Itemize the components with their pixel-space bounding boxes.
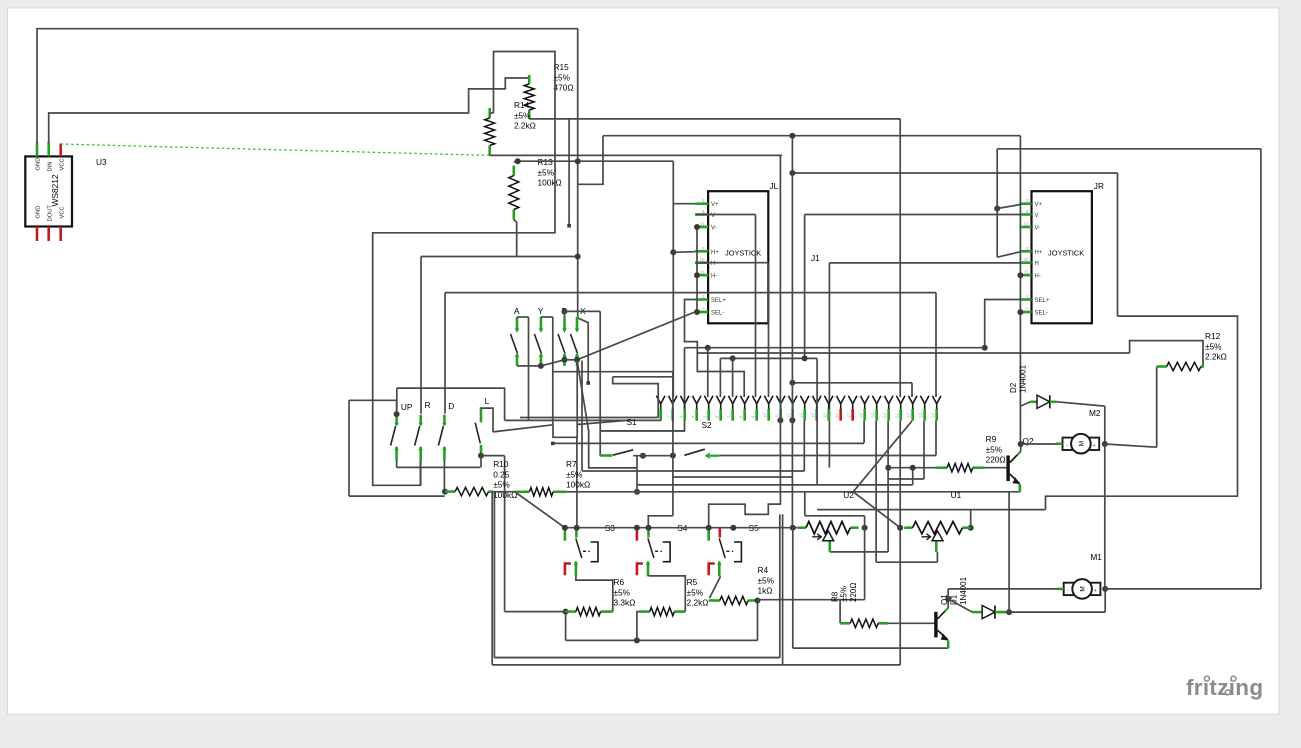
wire S2 pin18 down — [863, 421, 865, 443]
wire rail y418 — [520, 417, 658, 419]
svg-text:11: 11 — [700, 270, 705, 275]
junction pin6 tap — [730, 355, 736, 361]
U3 top pin GND stub — [36, 142, 39, 156]
wire rail y383 — [792, 382, 912, 384]
junction x913 R9 rail — [910, 465, 916, 471]
switch L top stub — [480, 407, 483, 422]
wire R13 top hook — [514, 160, 518, 163]
wire UP top feed — [349, 400, 397, 412]
wire R6 left rail — [505, 611, 566, 613]
U3 pin labels top GND DIN VCC — [36, 158, 66, 222]
wire x684 down to y431 — [600, 348, 684, 431]
junction pin4 tap — [705, 345, 711, 351]
wire rail y468 to R9 — [888, 467, 936, 469]
wire JL V right — [696, 214, 756, 216]
switch S1 blade 2 — [684, 449, 705, 455]
wire U2 right column — [864, 516, 866, 600]
junction S3 a — [562, 525, 568, 531]
wire S2 pin12 long column — [791, 136, 793, 528]
wire UP bottom down — [396, 461, 398, 467]
switch D bottom stub — [443, 447, 446, 461]
wire rail y443 — [553, 442, 864, 444]
svg-text:H: H — [1035, 261, 1039, 267]
resistor R9 220 — [936, 464, 984, 472]
svg-text:VCC: VCC — [60, 158, 66, 170]
switch X blade — [571, 334, 578, 354]
wire S3 bottom to R6 right — [576, 576, 613, 611]
wire rail y173 — [792, 172, 1117, 174]
wire dip jog — [553, 425, 577, 438]
svg-text:22: 22 — [907, 413, 912, 418]
junction pin20 R9 rail — [885, 465, 891, 471]
wire L bottom link — [480, 456, 482, 468]
wire bottom rail a — [494, 657, 779, 659]
wire R4 right down — [757, 601, 759, 641]
wire ratsnest U3 VCC to R14 dashed green — [61, 144, 490, 155]
JL pin 1 SEL+ stub — [695, 298, 708, 301]
junction JL H+ tap — [670, 249, 676, 255]
wire S1 column to S4 left — [648, 516, 673, 528]
wire S2 pin24 down — [935, 421, 937, 456]
svg-text:SEL+: SEL+ — [711, 298, 726, 304]
junction x805 y358 — [802, 355, 808, 361]
junction S1 common b — [670, 453, 676, 459]
svg-text:WS8212: WS8212 — [50, 174, 60, 206]
junction R6 left — [563, 609, 569, 615]
resistor R15 470 ohm — [524, 75, 534, 119]
wire JL SEL- diagonal to switch X — [577, 312, 695, 360]
wire rail y293 — [445, 292, 936, 294]
JL pin 2 V+ stub — [695, 202, 708, 205]
motor M1 — [1058, 579, 1101, 599]
svg-text:10: 10 — [763, 413, 768, 418]
svg-text:+: + — [1094, 588, 1097, 594]
junction D1 cathode — [1006, 609, 1012, 615]
wire rail y311 — [565, 310, 601, 312]
wire rail y149 — [997, 148, 1261, 150]
wire end marker x569 — [567, 224, 571, 228]
wire U2 wiper rail — [830, 551, 888, 553]
wire JR H+ hook — [997, 252, 1019, 257]
wire JL SEL+ route to S2 pin8 — [685, 300, 745, 398]
junction JR SEL+ to rail — [982, 345, 988, 351]
switch R top stub — [419, 415, 422, 426]
joystick JR body — [1032, 191, 1092, 323]
wire JR right column — [1117, 173, 1119, 316]
resistor R13 100k — [509, 166, 519, 220]
potentiometer U2 — [798, 522, 859, 541]
svg-text:R: R — [425, 400, 431, 410]
svg-text:L: L — [485, 396, 490, 406]
junction R4 right — [755, 598, 761, 604]
switch S3 terminal B stub — [575, 528, 578, 538]
wire rail y471 left — [582, 470, 804, 472]
wire A top hook — [517, 316, 529, 318]
wire down to S2 pin5 — [719, 358, 721, 397]
connector S2 24 header pins — [656, 396, 941, 409]
svg-text:M1: M1 — [1090, 552, 1102, 562]
switch B bottom stub — [563, 354, 566, 366]
svg-text:S2: S2 — [702, 420, 713, 430]
junction S5 U2 left — [790, 525, 796, 531]
junction y640 — [634, 637, 640, 643]
JL pin 3 H+ stub — [695, 250, 708, 253]
switch B top stub — [563, 317, 566, 331]
svg-text:SEL-: SEL- — [1035, 311, 1048, 317]
svg-text:H+: H+ — [711, 250, 719, 256]
U3 part name WS8212 — [50, 174, 60, 206]
wire R14 top frame to switch R bottom — [373, 52, 555, 486]
transistor Q1 — [934, 608, 948, 641]
wire to R12 right — [1130, 341, 1203, 367]
wire R10 right column b — [493, 492, 495, 658]
svg-text:+: + — [1093, 443, 1096, 449]
switch S4 terminal B stub — [647, 528, 650, 538]
U3 top pin DIN stub — [47, 142, 50, 156]
wire R10 right column a — [491, 492, 493, 665]
junction S4 green — [646, 525, 652, 531]
svg-text:H+: H+ — [1035, 250, 1043, 256]
wire R8 to Q1 base — [888, 622, 935, 624]
switch A blade — [511, 334, 518, 354]
wire A bottom to Y — [517, 365, 541, 367]
wire S1 upper frame — [613, 377, 659, 418]
wire D1 column up — [1008, 492, 1010, 612]
svg-text:20: 20 — [883, 413, 888, 418]
junction L bottom — [478, 453, 484, 459]
svg-text:J1: J1 — [811, 253, 820, 263]
wire rail y372 — [553, 371, 673, 373]
switch S4 dashed link — [655, 550, 662, 552]
junction JR H- — [1017, 272, 1023, 278]
junction S4 red — [634, 525, 640, 531]
wire Q2 collector up — [1020, 444, 1022, 452]
JL pin 10 H stub — [695, 261, 708, 264]
JL pin 8 V stub — [695, 213, 708, 216]
wire bottom rail y640 — [566, 639, 758, 641]
junction S3 b — [574, 525, 580, 531]
wire B to X bottom — [565, 359, 578, 361]
wire U1 wiper rail — [876, 561, 937, 563]
svg-text:220Ω: 220Ω — [849, 583, 858, 602]
svg-text:SEL+: SEL+ — [1035, 298, 1050, 304]
wire bottom rail a — [494, 657, 779, 659]
junction JL V- — [694, 224, 700, 230]
wire JR V- D2 column — [1019, 136, 1021, 444]
junction JL H- — [694, 272, 700, 278]
JR pin 1 SEL+ stub — [1019, 298, 1031, 301]
JR pin 2 V+ stub — [1019, 202, 1031, 205]
svg-text:V-: V- — [711, 226, 717, 232]
junction JR SEL- — [1017, 309, 1023, 315]
U3 bottom pin DOUT stub red — [47, 227, 50, 242]
junction x578 y257 — [575, 254, 581, 260]
wire R7 right rail to Q2 emitter — [566, 491, 1020, 493]
wire rail y353 — [697, 352, 1129, 354]
resistor R4 1k — [709, 596, 758, 604]
wire end marker y443 — [551, 442, 555, 446]
wire JR SEL+ down — [985, 300, 1021, 348]
switch R blade — [415, 426, 420, 446]
wire R13 bottom left — [421, 220, 517, 257]
wire S2 pin14 column — [816, 358, 818, 485]
junction UP top — [394, 411, 400, 417]
wire bottom rail b — [492, 664, 900, 666]
switch S5 dashed link — [726, 550, 733, 552]
wire slant2 to rail — [577, 420, 629, 424]
svg-text:fritzing: fritzing — [1186, 675, 1263, 700]
wire rail y388 — [397, 387, 505, 389]
svg-text:UP: UP — [401, 402, 413, 412]
junction y173 x792 — [789, 170, 795, 176]
svg-text:14: 14 — [811, 413, 816, 418]
wire right edge column — [1260, 149, 1262, 589]
svg-text:GND: GND — [36, 206, 42, 219]
svg-text:10: 10 — [1024, 257, 1029, 262]
wire Q1 collector to D1 — [948, 599, 972, 612]
junction S2 pin11 tip — [777, 417, 783, 423]
wire R9 to Q2 base — [984, 467, 1007, 469]
svg-text:U1: U1 — [951, 490, 962, 500]
wire R10 to R7 — [493, 491, 517, 493]
wire JL H down to S2 pin10 — [768, 263, 770, 397]
S2 pin number labels — [655, 413, 936, 418]
wire S2 pin13 down — [803, 421, 805, 471]
wire JL H+ left — [673, 251, 695, 254]
switch S5 blade — [719, 538, 725, 558]
junction R10 left — [442, 489, 448, 495]
wire R12 left column — [1156, 367, 1158, 448]
junction U1 right — [968, 525, 974, 531]
wire rail y348 — [685, 347, 985, 349]
svg-text:A: A — [514, 306, 520, 316]
svg-text:H-: H- — [1035, 274, 1041, 280]
junction Q1 collector — [945, 596, 951, 602]
wire x349 column — [348, 400, 350, 496]
wire Y top hook — [541, 316, 553, 318]
switch S3 terminal A stub — [564, 528, 567, 541]
wire down to S2 pin4 — [707, 348, 709, 397]
motor M2 — [1056, 434, 1099, 454]
wire L bottom right — [481, 455, 505, 457]
switch S1 blade — [613, 450, 634, 455]
wire D1 to M1 column — [1009, 611, 1105, 613]
svg-text:1N4001: 1N4001 — [959, 576, 968, 605]
junction JL SEL- — [694, 309, 700, 315]
junction S5 green — [706, 525, 712, 531]
wire R13 bottom rail right — [517, 256, 578, 258]
Q2 emitter stub — [1018, 484, 1021, 492]
wire B top stub link — [564, 311, 566, 317]
resistor R12 2.2k — [1157, 362, 1204, 370]
svg-text:JOYSTICK: JOYSTICK — [1048, 249, 1084, 258]
wire R8 left up — [839, 600, 841, 624]
wire rail y358 — [720, 357, 817, 359]
wire S1 mid — [633, 455, 673, 457]
svg-text:-: - — [1067, 588, 1069, 594]
switch S1 pin stub 2 arrow — [706, 455, 719, 457]
wire U1 wiper down — [936, 552, 938, 562]
wire JL V- to SEL- column — [696, 227, 698, 312]
svg-text:DIN: DIN — [48, 162, 54, 172]
wire slant L to Y column — [493, 425, 553, 432]
wire x805 down — [804, 215, 806, 359]
junction S1 common a — [640, 453, 646, 459]
diode D1 1N4001 — [972, 606, 1006, 619]
wire S2 pin20 column — [887, 421, 889, 552]
svg-text:DOUT: DOUT — [48, 205, 54, 222]
transistor Q2 — [1006, 452, 1020, 485]
switch S4 body bracket — [663, 542, 670, 562]
svg-text:M: M — [1078, 441, 1085, 446]
wire vertical to S2 pin 21 — [899, 119, 901, 397]
wire R15 bottom rail to S2 pin21 — [529, 118, 900, 120]
wire JR V feed rail — [805, 214, 1021, 216]
diode D2 1N4001 — [1020, 395, 1057, 408]
junction Y bottom — [538, 363, 544, 369]
svg-text:17: 17 — [847, 413, 852, 418]
wire S2 pin11 notch route to S5 — [709, 420, 781, 527]
wire up to M1 right — [1104, 589, 1106, 612]
junction M1 right — [1102, 586, 1108, 592]
wire S2 pin23 down — [923, 421, 925, 479]
wire x780 to rail a — [779, 514, 781, 657]
svg-text:12: 12 — [700, 222, 705, 227]
wire x829 down — [828, 263, 830, 468]
wire main vertical x578 — [577, 29, 579, 318]
switch S3 dashed link — [583, 550, 590, 552]
switch S5 bottom-left red stub — [709, 564, 715, 576]
wire down to M2 right — [1104, 406, 1106, 444]
JL pin 12 V- stub — [695, 226, 708, 229]
wire stub x569 — [568, 119, 570, 226]
junction x792 y383 — [789, 380, 795, 386]
svg-text:V+: V+ — [711, 202, 719, 208]
svg-text:±5%: ±5% — [840, 586, 849, 602]
switch S5 terminal B stub — [718, 528, 721, 538]
junction B bottom — [562, 357, 568, 363]
svg-text:21: 21 — [895, 413, 900, 418]
junction pin12 column top — [789, 133, 795, 139]
svg-text:11: 11 — [1024, 270, 1029, 275]
svg-text:H-: H- — [711, 274, 717, 280]
wire S2 pin11 up column — [779, 155, 781, 420]
wire Q2 collector to M2 left — [1021, 443, 1057, 445]
switch L blade — [475, 423, 480, 444]
Q1 value labels — [940, 594, 949, 605]
JR pin 8 V stub — [1019, 213, 1031, 216]
svg-text:U2: U2 — [843, 490, 854, 500]
wire rail y479 — [888, 478, 924, 480]
switch S5 body bracket — [734, 542, 741, 562]
resistor R10 100k — [445, 487, 493, 495]
svg-text:12: 12 — [1024, 222, 1029, 227]
wire S5 bottom diagonal to R4 left — [710, 576, 721, 598]
wire x637 down — [636, 456, 638, 493]
JR pin 11 H- stub — [1019, 274, 1031, 277]
svg-text:V+: V+ — [1035, 202, 1043, 208]
svg-text:D2: D2 — [1009, 382, 1018, 393]
wire rail y431 — [600, 430, 684, 432]
junction S2 pin12 tip — [789, 417, 795, 423]
wire rail y485 — [637, 484, 913, 486]
svg-text:U3: U3 — [96, 157, 107, 167]
wire x505 upper — [504, 388, 506, 420]
wire rail y528 S3 S4 S5 U2 — [565, 527, 798, 529]
svg-text:JL: JL — [770, 181, 779, 191]
JR pin 3 H+ stub — [1019, 250, 1031, 253]
svg-text:18: 18 — [859, 413, 864, 418]
switch B blade — [558, 334, 565, 354]
wire S1 left column — [672, 372, 674, 516]
wire R13 top rail right — [518, 160, 674, 162]
switch X top stub — [576, 317, 579, 331]
junction U2 right — [862, 525, 868, 531]
wire S4 bottom to R5 right — [649, 576, 685, 612]
switch R bottom stub — [419, 447, 422, 461]
wire JL V down to S2 pin9 — [755, 215, 757, 398]
svg-text:SEL-: SEL- — [711, 311, 724, 317]
junction S5 extra — [730, 525, 736, 531]
svg-text:1N4001: 1N4001 — [1019, 364, 1028, 393]
wire M2 right to R12 column — [1105, 444, 1157, 447]
wire S2 pin19 column — [875, 421, 877, 563]
svg-text:V-: V- — [1035, 226, 1041, 232]
wire X bottom steep diagonal route — [577, 360, 637, 468]
wire rail y516 — [805, 515, 865, 517]
switch S1 pin stub — [600, 454, 612, 457]
svg-text:VCC: VCC — [60, 206, 66, 218]
wire x913 link — [912, 468, 914, 485]
wire JL H right — [696, 262, 769, 264]
wire down to S2 pin6 — [732, 358, 734, 397]
JR pin 10 H stub — [1019, 261, 1031, 264]
svg-text:11: 11 — [775, 413, 780, 418]
svg-text:19: 19 — [871, 413, 876, 418]
wire down to switch R top — [420, 257, 422, 414]
switch S5 terminal A stub — [707, 528, 710, 541]
junction B top — [562, 308, 568, 314]
wire rail y510 — [817, 509, 1045, 511]
junction x578 y161 — [575, 158, 581, 164]
U3 bottom pin VCC stub red — [59, 227, 62, 242]
switch S4 blade — [648, 538, 654, 558]
wire U3 GND to top rail — [37, 29, 578, 143]
junction R13 top — [515, 158, 521, 164]
joystick JL body — [708, 191, 768, 323]
JR pin 12 V- stub — [1019, 226, 1031, 229]
svg-text:24: 24 — [931, 413, 936, 418]
U1 wiper stub — [935, 542, 938, 552]
svg-text:V: V — [1035, 213, 1039, 219]
svg-text:23: 23 — [919, 413, 924, 418]
svg-text:JR: JR — [1094, 181, 1104, 191]
wire R4 right rail to U2 column — [758, 599, 865, 601]
svg-text:15: 15 — [823, 413, 828, 418]
switch X bottom stub — [576, 354, 579, 366]
switch Y bottom stub — [540, 354, 543, 366]
wire L top hook — [481, 408, 493, 432]
resistor R5 2.2k — [639, 607, 686, 615]
wire right loop to y496 — [1046, 316, 1238, 510]
svg-text:10: 10 — [700, 257, 705, 262]
wire Y column down — [552, 317, 554, 425]
wire S5 column down — [792, 528, 794, 648]
wire diagonal R7 left to S3 — [517, 493, 565, 528]
wire x783 to rail b — [782, 514, 784, 665]
switch Y top stub — [540, 317, 543, 331]
switch S4 bottom stub — [647, 562, 650, 577]
